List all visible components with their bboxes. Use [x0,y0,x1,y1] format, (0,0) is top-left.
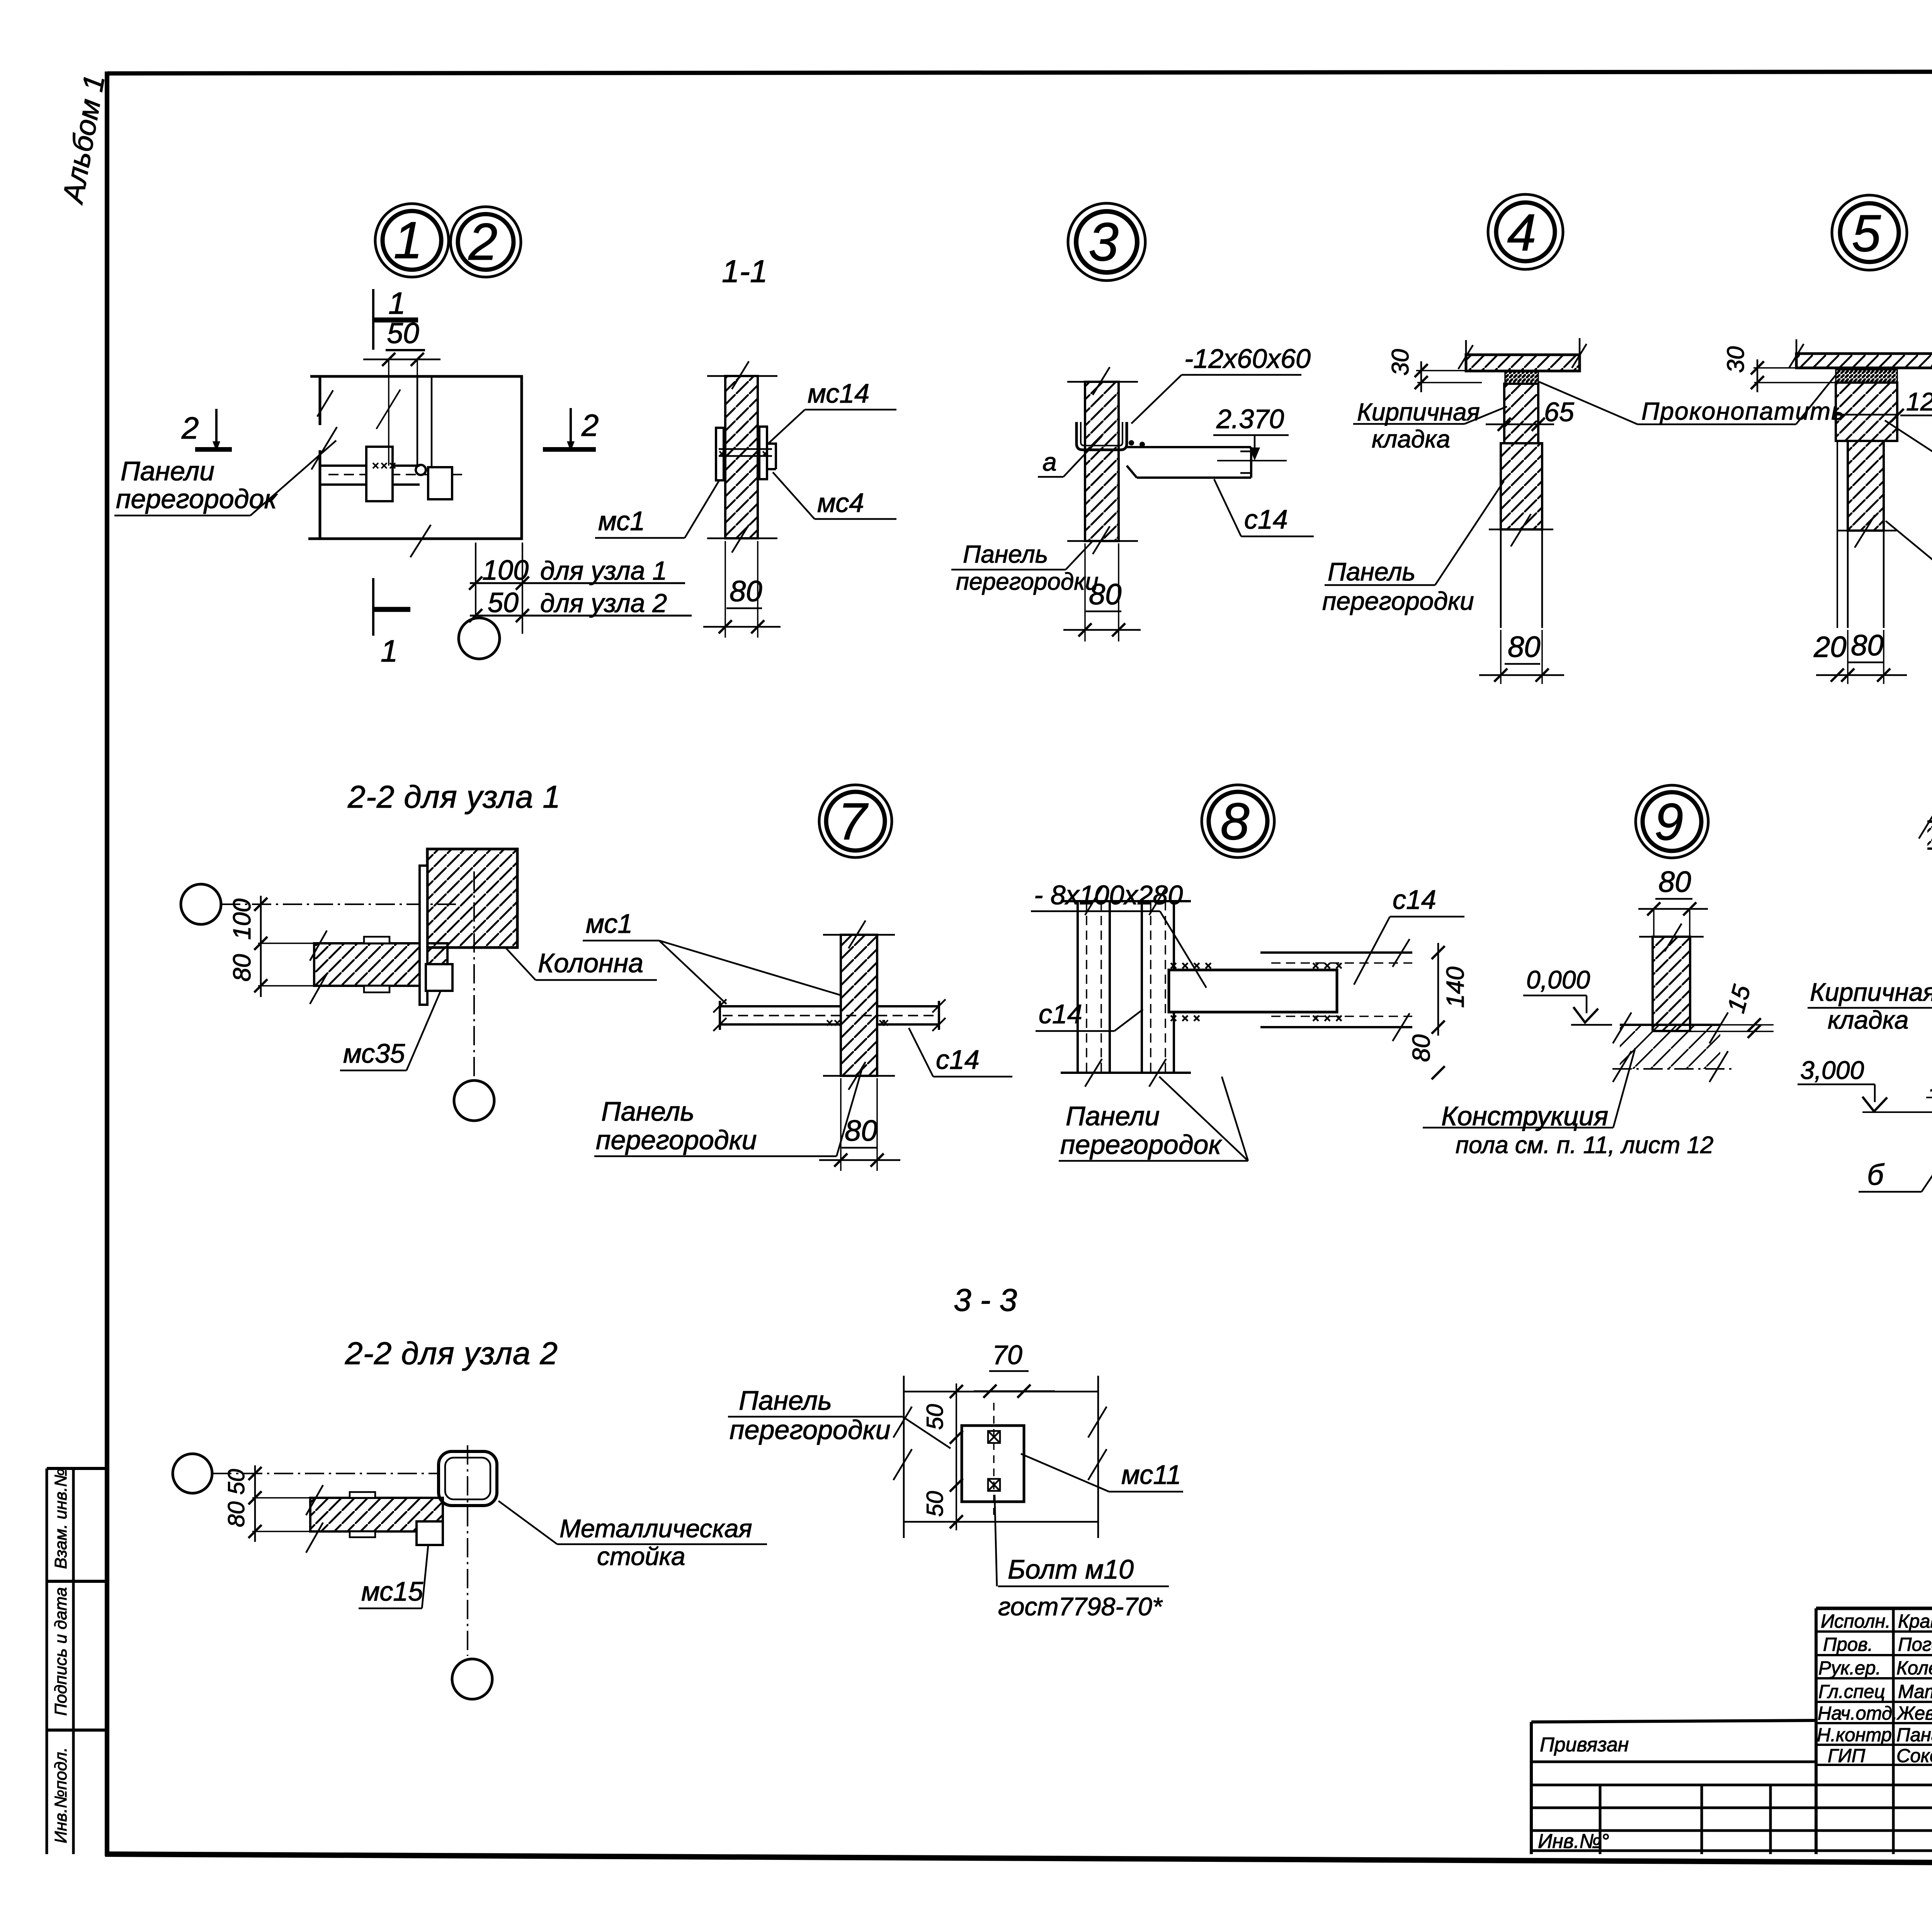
caulking dense d5 [1836,370,1897,383]
channel c14 side view [1127,447,1251,478]
bolt circle [416,465,426,475]
panel continuation d5 [1848,531,1884,628]
panel below hatched d5 [1848,441,1884,531]
svg-text:Панель: Панель [739,1385,832,1416]
svg-text:80: 80 [1407,1034,1435,1062]
weld crosses [719,451,767,456]
floor band end breaks [1613,1012,1728,1082]
svg-text:перегородки: перегородки [1322,587,1474,615]
svg-text:Взам. инв.№: Взам. инв.№ [51,1468,70,1569]
plate mc11 front [962,1426,1024,1502]
dimensions 100 80 left [228,896,314,997]
svg-text:перегородки: перегородки [730,1415,891,1445]
metal post square tube [439,1451,497,1506]
wall section hatched [841,935,877,1076]
slab end breaks d4 [1458,344,1587,369]
fixing tabs u2 [350,1492,375,1498]
svg-text:мс35: мс35 [343,1038,405,1068]
label Панели перегородок [114,441,336,516]
dimension 80 right d8 [1407,1034,1445,1079]
section mark 1 top [372,286,418,350]
panel strip hatched [314,943,447,986]
level mark 0.000 d9 [1523,965,1612,1025]
bolt 2 [988,1479,1000,1491]
wall top cut and break [823,934,895,936]
svg-text:80: 80 [845,1114,878,1147]
svg-text:3: 3 [1088,211,1119,272]
svg-text:Панель: Панель [963,540,1048,568]
channel c14 right horizontal [1260,953,1412,1027]
svg-text:120: 120 [1930,1069,1932,1097]
svg-text:мс1: мс1 [586,909,633,939]
svg-text:80: 80 [1658,866,1691,898]
panel left end break [310,931,327,1004]
svg-text:30: 30 [1723,346,1749,373]
label Колонна [505,948,657,980]
svg-text:мс15: мс15 [361,1576,423,1606]
svg-text:30: 30 [1387,349,1414,376]
svg-text:Панащенко: Панащенко [1896,1725,1932,1746]
label Металлическая стойка [498,1501,767,1570]
wall section hatched [1085,382,1119,541]
label Проконопатить shared [1539,374,1845,425]
floor slab hatched d5 [1796,354,1932,368]
svg-text:а: а [1043,447,1057,476]
label Кирпичная кладка d4 [1353,398,1507,453]
svg-text:Исполн.: Исполн. [1821,1611,1891,1632]
dimension 70 top [974,1340,1055,1398]
svg-text:Гл.спец: Гл.спец [1818,1681,1885,1702]
svg-text:4: 4 [1507,203,1536,262]
weld crosses d7 [827,1020,888,1026]
label a [1038,436,1102,477]
dimension 120 d5 [1891,387,1932,422]
svg-text:с14: с14 [936,1045,980,1075]
horizontal axis dash-dot u2 [212,1473,498,1474]
label mc4 [773,472,896,519]
node marker circle [459,618,500,659]
privyazan inner vertical dividers [1599,1785,1602,1854]
detail circle 4 [1488,194,1563,269]
svg-text:1: 1 [388,286,406,320]
svg-text:стойка: стойка [597,1542,685,1570]
panel boundary lines 3-3 [904,1376,1098,1538]
svg-text:Болт м10: Болт м10 [1008,1554,1134,1584]
svg-text:для узла 2: для узла 2 [540,589,667,618]
svg-text:Матвеев: Матвеев [1898,1681,1932,1702]
dims 50 50 left 3-3 [922,1383,963,1530]
svg-text:Привязан: Привязан [1540,1734,1629,1756]
label c14 d7 [909,1028,1012,1077]
svg-text:б: б [1867,1159,1884,1191]
svg-text:20: 20 [1813,631,1847,664]
left fixing plate mc1 [716,428,724,480]
angle bracket 12x60x60 wrapping wall [1077,422,1127,450]
floor construction band [1620,1025,1720,1069]
label Кирпичная кладка d10 [1808,939,1932,1048]
axis circle left [181,884,221,924]
wall top cut line and break [707,375,777,377]
caulking dense d4 [1505,371,1538,384]
svg-text:1: 1 [381,634,398,668]
svg-text:Панели: Панели [1066,1101,1160,1131]
label c14 left d8 [1036,999,1143,1031]
svg-text:120: 120 [1906,387,1932,416]
svg-text:80: 80 [228,954,256,982]
section mark 2 left [181,409,232,451]
svg-text:Подпись и дата: Подпись и дата [51,1587,70,1716]
svg-text:2-2 для узла 1: 2-2 для узла 1 [347,779,561,815]
detail circle 8 [1202,785,1274,858]
svg-text:мс11: мс11 [1121,1460,1181,1490]
svg-text:7: 7 [838,792,869,851]
hidden dash line through panel [723,1015,937,1016]
brick course 120 d5 [1836,383,1897,441]
dimension 30 left d5 [1723,346,1836,392]
svg-text:мс1: мс1 [598,506,645,536]
left margin stamp column boxes [47,1468,107,1854]
svg-text:80: 80 [1508,631,1541,664]
label mc15 [359,1546,428,1608]
label Панель перегородки 3-3 [728,1385,951,1448]
vertical axis dash-dot [473,871,475,1080]
column outline plan [308,376,522,539]
lower empty rows lines [1531,1784,1932,1786]
svg-text:Металлическая: Металлическая [560,1514,752,1543]
weld marks [373,463,395,468]
svg-text:100: 100 [482,555,529,586]
level mark 3.000 [1798,1056,1932,1112]
panel below hatched d4 [1501,443,1542,529]
svg-text:5: 5 [1852,204,1881,262]
dimension 80 bottom d3 [1063,543,1141,641]
gap line left of panel d5 [1837,441,1838,628]
svg-text:2.370: 2.370 [1216,404,1284,434]
svg-text:140: 140 [1441,966,1469,1008]
svg-text:80: 80 [730,575,762,608]
svg-text:Кирпичная: Кирпичная [1810,978,1932,1006]
frame bottom border [105,1854,1932,1866]
node circle bottom u2 [452,1659,492,1699]
svg-text:50: 50 [488,587,519,618]
svg-text:1: 1 [393,211,422,269]
svg-text:с14: с14 [1244,504,1288,534]
svg-text:-12х60х60: -12х60х60 [1184,344,1311,374]
svg-text:2: 2 [181,411,199,445]
svg-text:мс14: мс14 [808,378,869,408]
detail circle 1 [375,204,449,277]
svg-text:перегородок: перегородок [1060,1130,1222,1160]
dimension 15 right d9 [1690,982,1774,1038]
detail circle 3 [1068,203,1145,281]
svg-text:мс4: мс4 [817,488,864,518]
floor line d9 [1620,1024,1720,1026]
svg-text:Инв.№°: Инв.№° [1538,1830,1609,1853]
signature table columns [1815,1608,1818,1854]
panel right [877,1001,939,1030]
label mc1 [595,480,719,538]
svg-text:ГИП: ГИП [1828,1746,1866,1766]
elevation 2.370 [1213,404,1289,461]
svg-text:2: 2 [581,408,599,442]
slab flange hatch [1927,822,1932,849]
svg-text:Рук.ер.: Рук.ер. [1818,1658,1881,1679]
svg-text:2: 2 [468,213,497,271]
svg-text:50: 50 [922,1491,948,1517]
svg-text:70: 70 [992,1340,1022,1370]
privyazan box outline [1531,1720,1816,1722]
wall bottom cut and break [1067,540,1138,542]
wall bottom cut and break [823,1075,895,1077]
detail circle 9 [1636,785,1708,858]
label Конструкция пола [1423,1048,1714,1159]
dimension 65 d4 [1486,397,1575,431]
svg-text:Погосян: Погосян [1898,1634,1932,1655]
panel strip plan [320,466,420,485]
bolts on bracket [1129,440,1134,446]
label Bolt m10 GOST [995,1495,1169,1621]
dimension 80 bottom d7 [819,1078,900,1171]
svg-text:Панель: Панель [601,1096,694,1126]
title block [1531,1608,1932,1865]
svg-text:для узла 1: для узла 1 [540,556,667,585]
svg-text:гост7798-70*: гост7798-70* [998,1592,1163,1621]
svg-text:Панели: Панели [121,456,214,486]
svg-text:перегородки: перегородки [956,568,1099,595]
label mc1 d7 [583,909,842,1004]
label Панель перегородки d5 [1886,521,1932,595]
label Кирпичная кладка d5 [1885,420,1932,485]
dimension 80 bottom d4 [1479,630,1564,684]
panel left end break u2 [306,1485,323,1553]
section mark 1 bottom [372,578,410,668]
label c14 d3 [1214,479,1314,536]
svg-text:80: 80 [1851,629,1884,662]
svg-text:с14: с14 [1393,885,1436,915]
svg-text:Пров.: Пров. [1823,1634,1873,1655]
horizontal axis dash-dot [221,903,456,905]
panel strip d9 [1653,937,1690,1031]
label mc11 3-3 [1021,1454,1183,1492]
dimensions 20 80 bottom d5 [1813,629,1907,684]
svg-text:кладка: кладка [1372,425,1450,453]
svg-text:Соколовский: Соколовский [1896,1746,1932,1766]
label mc35 [340,991,440,1070]
dimension 120 and 10 [1926,1067,1932,1104]
signature table rows [1816,1630,1932,1633]
svg-text:Кирпичная: Кирпичная [1357,398,1480,426]
slab end breaks d10 [1919,811,1932,839]
label Панель перегородки d3 [951,540,1099,595]
stud mc35 on column face [420,866,427,1005]
svg-text:Колединцева: Колединцева [1896,1658,1932,1679]
label Панели перегородок d8 [1059,1077,1248,1161]
svg-text:0,000: 0,000 [1526,965,1590,994]
detail circle 2 [451,207,521,277]
detail circle 5 [1832,195,1907,270]
node variant dimension rows [469,543,692,634]
bracket plate A [366,447,393,501]
label -8x100x280 [1031,880,1206,988]
label -12x60x60 [1131,344,1311,424]
label b [1859,1131,1932,1192]
left strip breaks [1085,887,1102,1087]
dimensions 50 80 left u2 [223,1465,310,1542]
dimension 80 top d9 [1638,866,1708,937]
bolt axis dashed [993,1403,995,1515]
label c14 top right d8 [1354,885,1464,985]
svg-text:перегородки: перегородки [596,1125,757,1155]
svg-text:Конструкция: Конструкция [1441,1101,1608,1131]
floor slab hatched d4 [1466,355,1580,371]
right fixing plate mc14 [759,427,767,479]
svg-text:80: 80 [223,1501,249,1527]
channel end breaks [1393,939,1410,1041]
dimension 140 right d8 [1432,943,1469,1036]
left strip inner dashed [1087,901,1101,1073]
svg-text:пола см. п. 11, лист 12: пола см. п. 11, лист 12 [1456,1132,1714,1159]
section mark 2 right [543,408,599,451]
panel joint lines at column face [417,376,418,466]
svg-text:3,000: 3,000 [1800,1056,1864,1084]
svg-text:Панель: Панель [1328,557,1415,586]
axis circle left u2 [173,1454,212,1493]
right strip inner dashed [1151,901,1165,1073]
panel top cut and break d9 [1639,936,1704,938]
svg-text:65: 65 [1544,397,1575,427]
right strip breaks [1149,887,1166,1087]
svg-text:Инв.№подл.: Инв.№подл. [51,1747,70,1843]
panel stub left [720,1001,841,1030]
frame top border [107,71,1932,73]
vertical axis dash-dot u2 [467,1445,468,1656]
weld x marks on plate [1171,963,1211,968]
ribbed slab top flange [1927,822,1932,849]
through bolt lines [719,449,772,456]
svg-text:9: 9 [1654,793,1683,851]
panel break cut d5 [1837,530,1896,532]
svg-text:2-2 для узла 2: 2-2 для узла 2 [345,1336,558,1371]
stamp outer top line [1816,1607,1932,1610]
column section hatched [427,849,517,948]
connecting plate 8x100x280 [1169,970,1337,1012]
label mc14 [768,378,896,444]
boundary breaks 3-3 [893,1407,1107,1480]
dimension 30 left d4 [1387,349,1505,392]
slab end breaks d5 [1789,343,1932,368]
frame left border [105,71,109,1856]
svg-text:3 - 3: 3 - 3 [954,1283,1017,1318]
panel break cut d4 [1489,529,1553,531]
svg-text:Кравцова: Кравцова [1898,1611,1932,1632]
svg-text:Нач.отд.: Нач.отд. [1818,1703,1898,1724]
bracket plate B [428,467,452,499]
clip mc15 [417,1521,443,1545]
wall top cut and break [1067,381,1138,383]
bolt 1 [988,1431,1000,1443]
node circle bottom [454,1080,494,1121]
svg-text:с14: с14 [1039,999,1082,1029]
svg-text:- 8х100х280: - 8х100х280 [1034,880,1183,910]
svg-text:8: 8 [1220,792,1249,851]
wall bottom cut line and break [707,538,777,539]
svg-text:Колонна: Колонна [538,948,643,978]
hidden dash line [328,474,466,475]
panel continuation d4 [1501,530,1542,628]
svg-text:80: 80 [1089,578,1122,611]
label Панель перегородки d7 [594,1067,862,1156]
dimension 80 bottom of 1-1 [703,541,781,638]
wall section hatched [725,376,758,538]
svg-text:50: 50 [223,1469,249,1495]
panel strip hatched u2 [310,1498,443,1531]
svg-text:100: 100 [228,898,256,940]
clip bracket [426,964,452,991]
dimension 50 top [363,317,440,466]
left panel strip vertical [1061,901,1126,1073]
svg-text:1-1: 1-1 [722,254,768,289]
svg-text:кладка: кладка [1828,1006,1908,1034]
break slashes on column left [311,390,431,557]
svg-text:Н.контр.: Н.контр. [1817,1725,1897,1746]
svg-text:50: 50 [922,1404,948,1430]
right panel strip vertical [1125,901,1191,1073]
svg-text:Жевнеров: Жевнеров [1896,1703,1932,1724]
detail circle 7 [819,785,892,858]
svg-text:перегородок: перегородок [116,484,278,514]
label Панель перегородки d4 [1322,481,1504,615]
panel end ticks [713,999,946,1031]
fixing tabs on panel [364,937,389,943]
brick course d4 [1504,384,1538,443]
mc4 angle piece [767,444,776,469]
signature table texts [1817,1611,1932,1766]
